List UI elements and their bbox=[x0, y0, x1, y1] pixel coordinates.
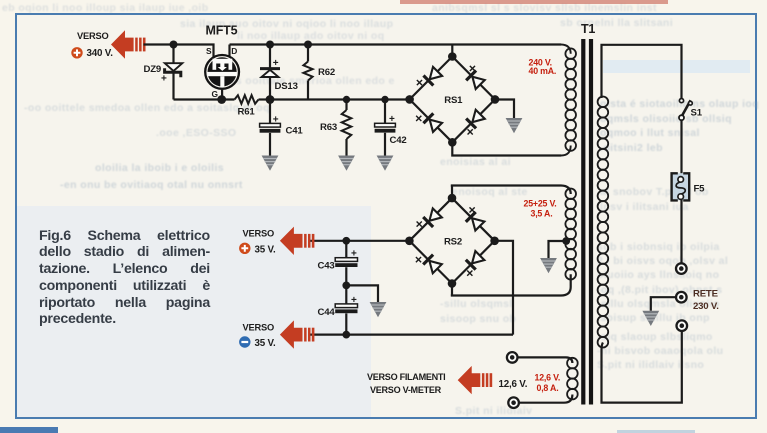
zener diode DZ9 bbox=[161, 45, 182, 100]
wire: top rail right of MOSFET bbox=[230, 43, 562, 45]
red arrow VERSO FILAMENTI bbox=[458, 366, 493, 394]
plus badge 35V bbox=[239, 243, 250, 254]
label VERSO +35V bbox=[243, 229, 276, 256]
capacitor C42 bbox=[375, 100, 396, 156]
wire: +35V rail bbox=[310, 240, 409, 242]
caption tint zone bbox=[17, 206, 371, 417]
red arrow VERSO 340V bbox=[111, 30, 146, 58]
red page rule bbox=[400, 0, 668, 4]
wire: center tap to earth bbox=[549, 241, 567, 258]
ground (RS1) bbox=[506, 118, 523, 133]
wire: RS2 bottom stub bbox=[451, 284, 453, 296]
node: DZ9 top junction bbox=[170, 41, 178, 49]
transformer T1 primary winding 230V bbox=[598, 45, 682, 403]
node: gate G bbox=[217, 95, 226, 104]
svg-text:C44: C44 bbox=[318, 307, 336, 318]
svg-text:VERSO: VERSO bbox=[77, 31, 109, 41]
switch S1 bbox=[679, 99, 692, 174]
ground (center tap) bbox=[540, 258, 557, 273]
cyan heading show-through bbox=[603, 60, 750, 73]
svg-text:G: G bbox=[212, 89, 218, 99]
fuse F5 bbox=[672, 173, 690, 263]
wire: midpoint to ground bbox=[346, 285, 378, 302]
bridge rectifier RS1 bbox=[405, 52, 499, 146]
transformer T1 core bbox=[581, 39, 593, 405]
wire: -35V rail bbox=[310, 334, 513, 336]
svg-text:VERSO: VERSO bbox=[243, 323, 275, 333]
resistor R62 bbox=[303, 45, 312, 100]
label 25+25V 3,5A bbox=[524, 199, 557, 219]
svg-text:DS13: DS13 bbox=[275, 81, 298, 92]
svg-text:+: + bbox=[161, 74, 167, 85]
svg-text:35 V.: 35 V. bbox=[255, 338, 276, 349]
svg-text:RS1: RS1 bbox=[444, 95, 463, 106]
wire: RS1 bottom stub + rail to winding bbox=[452, 142, 561, 155]
svg-text:R61: R61 bbox=[238, 107, 256, 118]
red arrow VERSO +35V bbox=[280, 227, 315, 255]
blue print artifact bottom-left bbox=[0, 427, 58, 433]
ground (R63) bbox=[338, 156, 355, 171]
capacitor C43 bbox=[335, 241, 357, 286]
svg-text:3,5 A.: 3,5 A. bbox=[531, 209, 553, 219]
resistor R61 bbox=[235, 95, 259, 104]
svg-text:C42: C42 bbox=[390, 135, 407, 146]
transformer T1 winding 240V bbox=[561, 45, 576, 156]
wire: gate rail bbox=[174, 98, 235, 100]
svg-text:S: S bbox=[206, 46, 212, 56]
label RETE 230V bbox=[693, 288, 719, 312]
label 12,6V 0,8A red bbox=[535, 373, 561, 393]
svg-text:S1: S1 bbox=[691, 108, 703, 119]
svg-text:C43: C43 bbox=[318, 261, 335, 272]
diode DS13 bbox=[260, 45, 280, 100]
terminal filament 2 bbox=[508, 397, 519, 408]
svg-text:RETE: RETE bbox=[693, 288, 719, 299]
wire: RS2 top stub bbox=[451, 186, 453, 199]
node: center tap bbox=[562, 237, 570, 245]
svg-text:+: + bbox=[351, 249, 357, 260]
red arrow VERSO -35V bbox=[280, 320, 315, 348]
node: -35V junction bbox=[342, 331, 350, 339]
svg-text:+: + bbox=[351, 295, 357, 306]
node: R63 top bbox=[343, 96, 350, 103]
svg-text:12,6 V.: 12,6 V. bbox=[499, 379, 528, 390]
svg-text:R62: R62 bbox=[318, 67, 335, 78]
capacitor C44 bbox=[335, 285, 357, 334]
plus badge bbox=[71, 47, 82, 58]
svg-text:R63: R63 bbox=[320, 122, 337, 133]
bridge rectifier RS2 bbox=[405, 194, 499, 288]
node: DS13 top bbox=[266, 41, 274, 49]
wire: mid rail to bridge RS1 bbox=[270, 98, 406, 100]
minus badge 35V bbox=[239, 336, 250, 347]
svg-text:340 V.: 340 V. bbox=[87, 48, 114, 59]
svg-text:T1: T1 bbox=[581, 22, 595, 36]
svg-text:C41: C41 bbox=[286, 126, 304, 137]
svg-text:RS2: RS2 bbox=[444, 236, 462, 247]
svg-text:0,8 A.: 0,8 A. bbox=[537, 383, 559, 393]
node: R62 top bbox=[304, 41, 312, 49]
transformer T1 winding 12.6V bbox=[518, 357, 578, 402]
wire: top rail (340V) bbox=[144, 45, 214, 58]
terminal mains 3 bbox=[677, 320, 688, 331]
terminal mains 2 (earth) bbox=[651, 292, 687, 311]
svg-text:D: D bbox=[231, 46, 237, 56]
wire: RS2 right corner to -35V rail bbox=[495, 241, 513, 335]
node: DS13 bottom junction bbox=[266, 95, 275, 104]
label VERSO 340V bbox=[77, 31, 113, 59]
node: C43/C44 junction bbox=[342, 282, 350, 290]
terminal filament 1 bbox=[507, 352, 518, 363]
ground (C42) bbox=[377, 156, 394, 171]
svg-text:+: + bbox=[273, 58, 279, 69]
ground (C43/C44) bbox=[370, 302, 387, 317]
label VERSO FILAMENTI / V-METER bbox=[367, 372, 445, 395]
resistor R63 bbox=[342, 100, 352, 156]
svg-text:F5: F5 bbox=[694, 184, 706, 195]
svg-text:VERSO V-METER: VERSO V-METER bbox=[370, 385, 442, 395]
terminal mains 1 bbox=[676, 263, 687, 274]
label 240V 40mA bbox=[529, 57, 557, 76]
svg-text:+: + bbox=[389, 114, 395, 125]
figure caption bbox=[39, 0, 210, 1]
svg-text:VERSO: VERSO bbox=[243, 229, 275, 239]
wire: RS1 top stub bbox=[451, 45, 453, 57]
transformer T1 winding 25+25V bbox=[451, 186, 576, 296]
svg-text:MFT5: MFT5 bbox=[206, 24, 238, 38]
svg-text:40 mA.: 40 mA. bbox=[529, 66, 557, 76]
svg-text:35 V.: 35 V. bbox=[255, 245, 276, 256]
wire: RS1 to ground bbox=[495, 100, 514, 119]
svg-text:+: + bbox=[273, 115, 279, 126]
ground (C41) bbox=[262, 156, 279, 171]
ground (mains earth) bbox=[642, 311, 659, 326]
blue print artifact bottom-right bbox=[617, 430, 695, 433]
svg-text:25+25 V.: 25+25 V. bbox=[524, 199, 557, 209]
svg-text:DZ9: DZ9 bbox=[144, 64, 162, 75]
label VERSO -35V bbox=[243, 323, 276, 350]
svg-text:230 V.: 230 V. bbox=[693, 301, 719, 312]
node: C43 top bbox=[342, 237, 350, 245]
capacitor C41 bbox=[260, 100, 281, 156]
mosfet MFT5 bbox=[205, 45, 239, 100]
node: C42 top bbox=[381, 96, 388, 103]
svg-text:12,6 V.: 12,6 V. bbox=[535, 373, 561, 383]
svg-text:VERSO FILAMENTI: VERSO FILAMENTI bbox=[367, 372, 445, 382]
